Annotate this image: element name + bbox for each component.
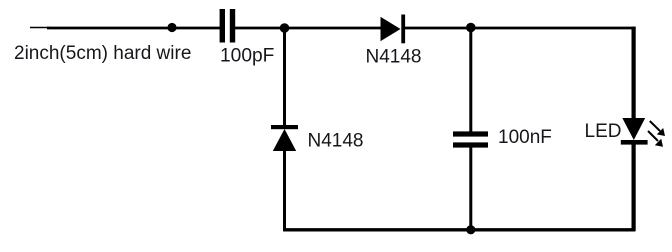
svg-text:100nF: 100nF — [498, 127, 552, 148]
svg-text:2inch(5cm) hard wire: 2inch(5cm) hard wire — [14, 43, 191, 64]
svg-text:N4148: N4148 — [366, 47, 422, 68]
svg-text:LED: LED — [585, 121, 622, 142]
svg-text:100pF: 100pF — [220, 45, 274, 66]
svg-text:N4148: N4148 — [308, 131, 364, 152]
